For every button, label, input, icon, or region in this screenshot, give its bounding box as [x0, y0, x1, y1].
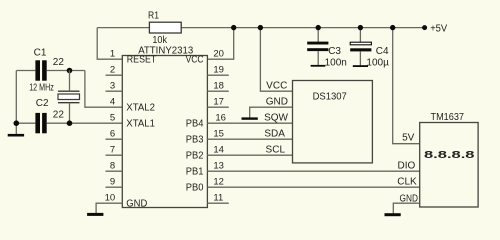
- node junction dot DS1307 VCC: [258, 25, 263, 30]
- wire XTAL2 branch: [85, 71, 122, 108]
- svg-text:CLK: CLK: [397, 176, 417, 187]
- svg-text:PB2: PB2: [186, 150, 204, 161]
- svg-text:10k: 10k: [152, 35, 168, 46]
- svg-text:11: 11: [213, 192, 223, 203]
- node junction dot C4: [358, 25, 363, 30]
- capacitor C3: [307, 42, 328, 52]
- pin 8 stub: [106, 170, 123, 172]
- IC U3 TM1637 box: [420, 123, 478, 208]
- svg-text:R1: R1: [148, 10, 159, 21]
- ground bar DS1307: [242, 117, 258, 119]
- wire SCL to PB2: [207, 154, 292, 156]
- svg-text:VCC: VCC: [266, 80, 287, 91]
- wire reset riser from rail to pin 1: [97, 28, 122, 60]
- pin 19 stub: [207, 74, 228, 76]
- wire CLK to PB0: [207, 186, 419, 188]
- svg-text:VCC: VCC: [186, 55, 204, 66]
- wire +5V rail right segment: [181, 27, 424, 29]
- svg-text:RESET: RESET: [127, 55, 157, 66]
- svg-text:22: 22: [53, 57, 65, 68]
- svg-text:SQW: SQW: [264, 112, 288, 123]
- svg-text:SDA: SDA: [264, 128, 285, 139]
- svg-text:5V: 5V: [402, 133, 415, 144]
- crystal Q1: [58, 91, 80, 103]
- wire +5V rail left segment: [97, 27, 149, 29]
- wire DS1307 GND to ground: [250, 107, 293, 117]
- svg-text:PB0: PB0: [186, 182, 204, 193]
- wire DIO to PB1: [207, 170, 419, 172]
- svg-text:DIO: DIO: [398, 160, 416, 171]
- svg-text:SCL: SCL: [266, 144, 286, 155]
- svg-text:16: 16: [215, 112, 226, 123]
- svg-text:GND: GND: [400, 194, 419, 205]
- pin 3 stub: [106, 90, 123, 92]
- svg-text:PB3: PB3: [186, 134, 204, 145]
- svg-text:14: 14: [213, 144, 224, 155]
- node junction dot crystal bottom: [67, 120, 73, 126]
- svg-text:3: 3: [110, 80, 115, 91]
- capacitor C2: [35, 113, 46, 133]
- wire C2 right lead to XTAL1: [47, 122, 123, 124]
- svg-text:12 MHz: 12 MHz: [29, 83, 54, 94]
- svg-text:C4: C4: [376, 46, 389, 57]
- pin 7 stub: [106, 154, 123, 156]
- wire C4 top lead: [359, 28, 361, 43]
- svg-text:100µ: 100µ: [366, 58, 389, 69]
- svg-text:+5V: +5V: [430, 23, 447, 34]
- svg-text:100n: 100n: [325, 57, 347, 68]
- wire SDA to PB3: [207, 138, 292, 140]
- node junction dot TM1637 5V: [390, 25, 395, 30]
- svg-text:20: 20: [213, 48, 224, 59]
- svg-text:PB4: PB4: [186, 118, 204, 129]
- svg-text:7: 7: [110, 144, 115, 155]
- pin 11 stub: [207, 202, 228, 204]
- svg-text:1: 1: [110, 48, 115, 59]
- svg-text:8: 8: [110, 160, 115, 171]
- svg-text:GND: GND: [266, 96, 288, 107]
- svg-text:17: 17: [213, 96, 224, 107]
- node junction dot left rail C2: [13, 120, 19, 126]
- svg-text:5: 5: [110, 112, 115, 123]
- ground bar below C4: [353, 65, 368, 67]
- wire C2 left lead: [16, 122, 35, 124]
- svg-text:TM1637: TM1637: [431, 112, 465, 123]
- wire C1 left lead: [16, 70, 35, 72]
- svg-text:XTAL1: XTAL1: [126, 118, 155, 129]
- IC U2 DS1307 box: [293, 81, 373, 163]
- wire TM1637 5V drop from rail: [393, 28, 420, 144]
- svg-text:19: 19: [213, 64, 224, 75]
- wire TM1637 GND to ground: [393, 203, 419, 213]
- capacitor C4 polarized: [350, 42, 371, 51]
- pin 18 stub: [207, 90, 228, 92]
- wire crystal bottom lead: [69, 103, 71, 124]
- svg-text:GND: GND: [126, 198, 147, 209]
- svg-text:C2: C2: [36, 98, 49, 109]
- node junction dot pin20 riser: [231, 25, 236, 30]
- wire left rail down to ground: [15, 71, 17, 135]
- resistor R1: [149, 22, 181, 33]
- svg-text:8.8.8.8: 8.8.8.8: [424, 150, 475, 161]
- wire SQW to PB4: [207, 122, 292, 124]
- svg-text:6: 6: [110, 128, 115, 139]
- pin 6 stub: [106, 138, 123, 140]
- svg-text:22: 22: [53, 110, 65, 121]
- node junction dot C3: [316, 25, 321, 30]
- op IC U1 ATTINY2313 box: [122, 56, 207, 208]
- wire C3 bottom lead: [317, 51, 319, 65]
- ground bar bottom left: [8, 134, 24, 137]
- capacitor C1: [35, 60, 46, 80]
- svg-text:4: 4: [110, 96, 115, 107]
- ground bar below C3: [311, 65, 326, 67]
- wire C4 bottom lead: [359, 52, 361, 66]
- pin 17 stub: [207, 106, 228, 108]
- svg-text:C1: C1: [34, 48, 47, 59]
- wire DS1307 VCC drop from rail: [260, 28, 292, 92]
- svg-text:12: 12: [213, 176, 224, 187]
- svg-text:DS1307: DS1307: [313, 91, 348, 102]
- node junction dot crystal top: [67, 68, 73, 74]
- node +5V terminal dot: [422, 25, 427, 30]
- svg-text:2: 2: [110, 64, 115, 75]
- svg-text:C3: C3: [328, 46, 341, 57]
- ground bar pin 10: [87, 213, 103, 216]
- pin 2 stub: [106, 74, 123, 76]
- svg-text:10: 10: [105, 192, 116, 203]
- svg-text:9: 9: [110, 176, 115, 187]
- svg-text:13: 13: [213, 160, 224, 171]
- pin 9 stub: [106, 186, 123, 188]
- wire C3 top lead: [317, 28, 319, 42]
- svg-text:PB1: PB1: [186, 166, 204, 177]
- wire C1 right lead to XTAL2 branch: [47, 70, 85, 72]
- wire crystal top lead: [69, 71, 71, 92]
- svg-text:15: 15: [213, 128, 224, 139]
- svg-text:XTAL2: XTAL2: [126, 102, 155, 113]
- wire VCC pin 20 to rail: [207, 28, 233, 60]
- svg-text:18: 18: [213, 80, 224, 91]
- pin 10 wire to ground: [96, 203, 122, 213]
- ground bar TM1637: [385, 213, 401, 216]
